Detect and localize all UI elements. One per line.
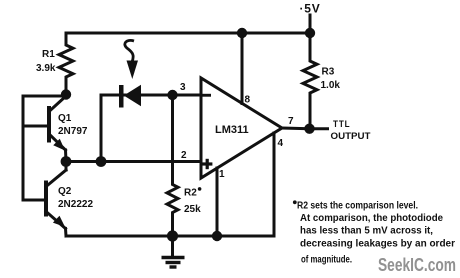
svg-text:R2 sets the comparison level.: R2 sets the comparison level. bbox=[297, 201, 418, 212]
node: R3 bottom / output bbox=[304, 124, 314, 134]
ground bus wire bbox=[66, 235, 274, 238]
svg-text:At comparison, the photodiode: At comparison, the photodiode bbox=[300, 213, 443, 224]
svg-text:·5V: ·5V bbox=[300, 2, 321, 16]
+5V supply stub wire bbox=[309, 15, 312, 33]
resistor R1 3.9k bbox=[59, 33, 73, 94]
svg-text:R2: R2 bbox=[184, 188, 197, 199]
svg-text:SeekIC.com: SeekIC.com bbox=[378, 255, 456, 275]
photodiode D1 symbol bbox=[119, 85, 141, 108]
node: photodiode bus / pin 2 wire bbox=[96, 156, 107, 167]
svg-text:3.9k: 3.9k bbox=[36, 63, 56, 74]
svg-text:of magnitude.: of magnitude. bbox=[301, 255, 352, 266]
pin 2 wire bbox=[101, 160, 201, 163]
node: +5V / R3 top bbox=[305, 28, 315, 38]
svg-text:1.0k: 1.0k bbox=[321, 80, 341, 91]
resistor R3 1.0k bbox=[303, 33, 317, 129]
svg-text:Q1: Q1 bbox=[58, 113, 72, 124]
svg-text:2N2222: 2N2222 bbox=[58, 199, 93, 210]
node: pin 8 / supply rail bbox=[237, 28, 247, 38]
pin 1 wire bbox=[216, 168, 219, 236]
pin 4 wire bbox=[273, 133, 276, 236]
base bus wire (Q1/Q2 bases) bbox=[22, 96, 25, 200]
top supply rail wire bbox=[66, 32, 310, 35]
op-amp U1 LM311 triangle bbox=[201, 78, 282, 178]
photodiode cathode bus wire bbox=[100, 95, 103, 162]
resistor R2 25k bbox=[167, 95, 178, 236]
node: R2 bottom / ground bbox=[167, 230, 178, 241]
wire from R1 node to base bus bbox=[23, 95, 66, 98]
ground symbol bbox=[162, 240, 185, 267]
svg-text:LM311: LM311 bbox=[215, 124, 249, 136]
pin 8 wire bbox=[241, 33, 244, 104]
svg-text:Q2: Q2 bbox=[58, 186, 72, 197]
svg-text:8: 8 bbox=[245, 95, 251, 106]
svg-text:4: 4 bbox=[278, 138, 284, 149]
op-amp plus input marker bbox=[202, 159, 212, 169]
svg-text:R3: R3 bbox=[322, 67, 335, 78]
node: R1 bottom / Q1 collector / bases bbox=[61, 89, 71, 99]
wire: Q1 emitter node to photodiode bus node bbox=[66, 160, 101, 163]
node: pin 3 wire / R2 top bbox=[167, 90, 177, 100]
output wire pin 7 bbox=[282, 127, 328, 131]
svg-text:1: 1 bbox=[219, 169, 225, 180]
svg-text:3: 3 bbox=[180, 82, 186, 93]
light arrow (photodiode illumination) bbox=[125, 40, 138, 79]
photodiode anode wire (pin 3) bbox=[101, 94, 201, 97]
node: Q1 emitter / Q2 collector bbox=[61, 156, 72, 167]
svg-text:2N797: 2N797 bbox=[58, 126, 88, 137]
note text bbox=[293, 200, 455, 265]
op-amp minus input marker bbox=[203, 94, 212, 97]
svg-text:TTL: TTL bbox=[333, 119, 351, 130]
svg-text:has less than 5 mV across it,: has less than 5 mV across it, bbox=[300, 226, 433, 237]
svg-text:25k: 25k bbox=[184, 204, 201, 215]
node: pin 1 / ground bus bbox=[212, 231, 222, 241]
transistor Q1 2N797 bbox=[23, 96, 66, 162]
svg-text:OUTPUT: OUTPUT bbox=[331, 131, 371, 142]
svg-text:2: 2 bbox=[181, 150, 187, 161]
svg-text:7: 7 bbox=[288, 116, 294, 127]
svg-text:decreasing leakages by an orde: decreasing leakages by an order bbox=[300, 239, 455, 250]
transistor Q2 2N2222 bbox=[23, 162, 66, 237]
svg-text:R1: R1 bbox=[42, 49, 55, 60]
